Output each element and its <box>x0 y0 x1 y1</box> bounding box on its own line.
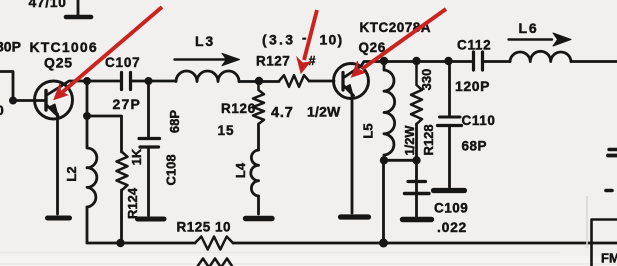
svg-text:L6: L6 <box>519 20 539 36</box>
svg-text:Q25: Q25 <box>44 55 73 71</box>
svg-text:C108: C108 <box>164 154 179 185</box>
svg-text:R127: R127 <box>256 53 290 68</box>
svg-text:L3: L3 <box>195 33 215 49</box>
capacitor C110 <box>448 61 451 116</box>
svg-text:120P: 120P <box>455 78 490 94</box>
resistor R128 <box>411 61 422 124</box>
capacitor 47/10 stub wire <box>77 0 80 15</box>
wire (input from left edge) <box>0 72 13 101</box>
label L4 (rotated) <box>233 162 248 178</box>
wire (base lead Q25) <box>13 99 45 102</box>
svg-text:R128: R128 <box>421 124 436 155</box>
wire (L5-R128 bottoms joined) <box>384 159 417 162</box>
wire (C107 to L3) <box>132 80 176 83</box>
label L2 (rotated) <box>64 166 79 181</box>
wire (L2 bottom corner) <box>86 207 89 243</box>
svg-text:KTC1006: KTC1006 <box>30 39 98 55</box>
svg-text:27P: 27P <box>113 96 142 112</box>
svg-text:L4: L4 <box>233 162 248 178</box>
node (rail/L5) <box>380 57 388 65</box>
wire (branch x87 down) <box>86 81 89 116</box>
ground (C109) <box>403 217 432 222</box>
svg-text:4.7: 4.7 <box>271 105 294 121</box>
svg-text:R124: R124 <box>125 187 140 219</box>
capacitor C108 <box>147 81 150 137</box>
label C108 (rotated) <box>164 154 179 185</box>
svg-text:-: - <box>302 31 307 46</box>
value 68P C108 (rotated) <box>167 110 182 133</box>
svg-text:C107: C107 <box>105 55 140 70</box>
label L5 (rotated) <box>361 123 376 138</box>
svg-text:R125 10: R125 10 <box>177 219 232 234</box>
ground (Q25 emitter) <box>48 216 70 221</box>
ground (L4) <box>246 216 273 221</box>
wire (R127 to Q26 base) <box>309 80 334 83</box>
wire (R126 to L4) <box>257 124 260 150</box>
node (edge mark right lower) <box>606 189 612 193</box>
node (L2/R124 junction) <box>83 112 91 120</box>
inductor L5 <box>384 61 395 160</box>
wire (L3 to R127 node) <box>239 80 279 83</box>
wire (to R124 top) <box>87 116 122 152</box>
resistor R125 <box>195 237 233 250</box>
svg-text:30P: 30P <box>0 39 21 55</box>
svg-text:68P: 68P <box>462 138 488 153</box>
node (L5 bottom) <box>380 156 388 164</box>
svg-text:L5: L5 <box>361 123 376 138</box>
svg-text:1/2W: 1/2W <box>402 125 417 156</box>
resistor (partial, next row cut at bottom) <box>197 259 232 266</box>
label R128 (rotated) <box>421 124 436 155</box>
resistor R126 <box>253 85 264 124</box>
wire (R128 bottom) <box>415 124 418 160</box>
inductor L2 <box>87 116 97 207</box>
inductor L6 <box>510 51 571 61</box>
svg-text:330: 330 <box>419 69 434 91</box>
node (R124/bottom wire) <box>116 239 124 247</box>
red annotation arrow 2 (to R127) <box>297 10 317 73</box>
ground (C110) <box>434 188 465 193</box>
wire (block border FM box) <box>592 220 617 266</box>
value 1/2W R128 (rotated) <box>402 125 417 156</box>
resistor R127 <box>279 75 309 87</box>
svg-text:47/10: 47/10 <box>29 0 67 10</box>
capacitor C107 <box>122 73 131 90</box>
ground (Q26 emitter) <box>341 214 369 219</box>
svg-text:.022: .022 <box>437 219 467 235</box>
value 330 (rotated) <box>419 69 434 91</box>
node (bottom rail junction) <box>379 239 388 248</box>
wire (C112 to L6) <box>484 60 510 63</box>
svg-text:1/2W: 1/2W <box>307 104 341 120</box>
resistor R124 <box>117 152 128 190</box>
wire (L6 to right edge) <box>571 60 617 63</box>
svg-text:L2: L2 <box>64 166 79 181</box>
svg-text:10): 10) <box>320 31 344 47</box>
wire (emitter Q25 down) <box>56 114 59 214</box>
node (rail/R128) <box>412 57 420 65</box>
capacitor C112 <box>474 52 483 70</box>
svg-text:0: 0 <box>0 102 4 118</box>
svg-text:1K: 1K <box>129 148 144 165</box>
svg-text:C109: C109 <box>434 200 468 215</box>
svg-text:(3.3: (3.3 <box>262 31 295 47</box>
wire (L4 bottom) <box>257 196 260 214</box>
value 1K (rotated) <box>129 148 144 165</box>
node (rail/R126 branch) <box>255 77 263 85</box>
node (rail/L2 branch) <box>83 77 91 85</box>
svg-text:68P: 68P <box>167 110 182 133</box>
wire (R124 bottom) <box>120 190 123 243</box>
wire (bottom ground rail) <box>87 242 617 245</box>
wire (node down to bottom rail) <box>382 160 385 243</box>
svg-text:C110: C110 <box>462 113 496 128</box>
wire (collector rail y81) <box>66 81 120 83</box>
inductor L3 <box>176 71 239 82</box>
inductor L4 <box>251 150 259 196</box>
svg-text:#: # <box>309 54 316 68</box>
svg-text:15: 15 <box>218 123 235 138</box>
svg-text:R126: R126 <box>221 101 256 116</box>
transistor Q26 <box>334 64 369 99</box>
svg-text:FM: FM <box>601 251 617 266</box>
capacitor C109 <box>415 160 418 180</box>
wire (L6 arrow) <box>509 38 553 40</box>
ground (C108) <box>138 217 165 222</box>
node (R128 bottom) <box>412 156 420 164</box>
red annotation arrow 1 (to Q25) <box>54 7 162 100</box>
red annotation arrow 3 (to Q26) <box>352 9 447 77</box>
node (base junction Q25) <box>9 97 17 105</box>
transistor Q25 <box>35 81 73 119</box>
faint scan artifact lines <box>586 196 588 248</box>
node (rail/C110) <box>444 57 452 65</box>
node (rail/C108 branch) <box>145 77 153 85</box>
node (edge mark right upper) <box>609 148 617 151</box>
wire (Q26 collector to rail) <box>361 62 473 67</box>
ground (under 47/10) <box>66 15 91 20</box>
wire (L3 arrow) <box>175 58 229 60</box>
wire (Q26 emitter down) <box>351 94 354 213</box>
svg-text:C112: C112 <box>457 38 491 53</box>
label R124 (rotated) <box>125 187 140 219</box>
